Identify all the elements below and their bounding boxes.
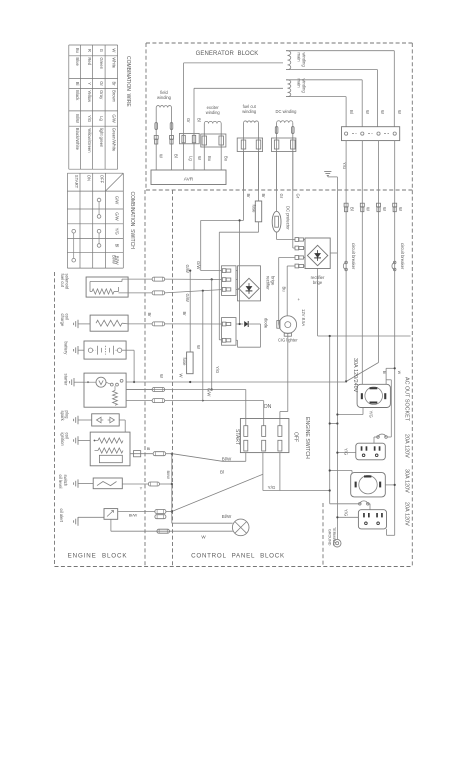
combination switch contact circles START column (72, 229, 76, 233)
fuel cut solenoid box (86, 277, 128, 297)
svg-text:Gr: Gr (279, 194, 284, 199)
spark plug box (92, 414, 120, 426)
svg-text:Y/G: Y/G (87, 115, 92, 122)
svg-text:Y: Y (140, 486, 143, 491)
svg-text:Bl: Bl (382, 371, 386, 374)
starter motor symbol (96, 377, 106, 387)
svg-text:Bl: Bl (220, 469, 224, 474)
wire from W bus into socket3 right (385, 484, 394, 486)
wire Gr right to rectifier2 pin2 (292, 152, 294, 249)
bottom dashed border (55, 566, 413, 568)
svg-text:30A 120V: 30A 120V (404, 469, 410, 493)
svg-text:Br: Br (112, 81, 117, 86)
wire Bl from connector pin1 down (345, 141, 347, 382)
starter solenoid coil (113, 391, 118, 406)
charge coil ground (77, 320, 79, 328)
combination switch table grid (66, 173, 68, 268)
fuel cut solenoid wires to harness (122, 278, 152, 280)
ignition harness pill (153, 452, 166, 456)
ignition coil ground (77, 436, 79, 444)
wire Y/G to socket2 (337, 452, 355, 454)
rectifier bridge 1 wire loop (238, 266, 261, 301)
oil level switch float (97, 482, 117, 486)
svg-text:main: main (297, 53, 302, 63)
svg-text:Y: Y (87, 82, 92, 85)
svg-text:Br: Br (182, 312, 187, 317)
svg-text:Lg: Lg (99, 116, 104, 121)
battery terminals and cells (88, 348, 92, 352)
svg-text:W: W (112, 48, 117, 52)
svg-text:Y/G: Y/G (268, 485, 276, 490)
svg-text:Bl/W: Bl/W (75, 114, 80, 123)
svg-text:START: START (234, 429, 240, 445)
engine switch terminals (244, 426, 248, 437)
battery ground (77, 346, 79, 354)
fuel cut winding legs (243, 123, 245, 190)
svg-text:ignition: ignition (60, 433, 65, 447)
svg-text:plug: plug (65, 411, 70, 420)
svg-text:COMBINATION SWITCH: COMBINATION SWITCH (129, 192, 135, 250)
svg-text:W: W (159, 374, 164, 378)
svg-text:Gr: Gr (295, 194, 300, 199)
svg-text:W: W (365, 110, 370, 114)
svg-text:DC protector: DC protector (286, 206, 291, 230)
svg-text:G/W: G/W (185, 294, 190, 302)
svg-text:W: W (197, 156, 202, 160)
bus link dots (330, 423, 338, 425)
main winding output wires staircase (286, 50, 394, 52)
svg-text:G/W: G/W (196, 261, 201, 269)
field winding pin connectors (154, 136, 158, 140)
svg-text:W: W (159, 154, 164, 158)
rectifier bridge 1 pins upper (222, 269, 226, 273)
svg-text:GENERATOR BLOCK: GENERATOR BLOCK (196, 51, 259, 57)
wire from DC fuse down-left to rectifier pin (258, 222, 260, 232)
rectifier bridge 2 diamond (307, 245, 327, 265)
svg-text:W: W (380, 110, 385, 114)
starter ground (73, 378, 75, 386)
svg-text:GROUND: GROUND (327, 529, 331, 546)
engine switch box (240, 419, 289, 453)
svg-text:rectifier: rectifier (266, 276, 271, 290)
svg-text:Bl/W: Bl/W (166, 471, 171, 480)
ac out socket 3 30A 120V twist lock (351, 473, 386, 497)
charge coil box (90, 315, 128, 331)
battery box (84, 341, 126, 359)
svg-text:Red: Red (87, 57, 92, 65)
svg-text:Bl: Bl (350, 207, 355, 211)
svg-text:Green: Green (99, 57, 104, 69)
oil alert ground (77, 517, 79, 525)
harness pin connectors on generator output wires (344, 203, 348, 207)
wire from socket1 side down to socket2 breaker (386, 379, 391, 381)
spark plug ground (77, 416, 79, 424)
starter harness wires and pills (126, 389, 152, 391)
wire G/W vertical to engine switch ON (202, 291, 204, 401)
ignition coil windings (98, 438, 123, 443)
DC winding bullet connectors (275, 127, 278, 134)
circuit breaker 2 on W wire (393, 261, 396, 264)
svg-text:Black/White: Black/White (75, 128, 80, 151)
svg-text:G/W: G/W (115, 196, 120, 204)
svg-text:Br: Br (261, 194, 266, 199)
svg-text:circuit breaker: circuit breaker (351, 243, 356, 270)
wire G/W vertical to engine switch START (211, 279, 213, 389)
wire from DC protector to rectifier2 pin1 (276, 232, 278, 239)
DC fuse (255, 201, 261, 222)
rectifier bridge 2 connecting stubs (304, 239, 305, 241)
svg-text:20A 120V: 20A 120V (404, 502, 410, 526)
svg-text:fuel cut: fuel cut (60, 274, 65, 288)
wire from bus to socket3 (330, 470, 352, 472)
rectifier bridge 1 pin housing upper (222, 266, 237, 296)
svg-text:Bu: Bu (75, 48, 80, 54)
svg-text:G/W: G/W (112, 114, 117, 122)
svg-text:Y/G: Y/G (344, 448, 349, 455)
wire W from connector pin2 down to socket1 (361, 141, 363, 385)
svg-text:Green/White: Green/White (112, 128, 117, 152)
rectifier bridge 1 diode (246, 286, 253, 291)
svg-text:W: W (196, 345, 201, 349)
generator block dashed border (146, 42, 412, 44)
ignition coil output wire Bl (130, 453, 153, 455)
DC protector oval (272, 211, 281, 232)
wire with breaker into socket4 (359, 503, 362, 506)
svg-text:Blue: Blue (75, 57, 80, 66)
svg-text:Gray: Gray (99, 90, 104, 100)
fuel cut solenoid coil (92, 289, 114, 294)
svg-text:Gr: Gr (99, 81, 104, 86)
wire branch Br vertical link (239, 220, 241, 324)
wire row1 harness to switch START terminal (126, 389, 246, 391)
svg-text:Bl/W: Bl/W (129, 512, 138, 517)
secondary bus from rectifier output (317, 269, 319, 337)
svg-text:coil: coil (65, 433, 70, 439)
wire Gr left through DC protector (276, 152, 278, 212)
rectifier bridge 1 diamond (239, 278, 259, 298)
wire Bl/W from switch bottom to ignition harness (245, 453, 247, 462)
wire G/W row A from harness to rectifier1 (165, 278, 222, 280)
exciter winding 2-pin connector (201, 134, 226, 147)
charge coil winding (96, 320, 122, 326)
spark plug wire to ignition coil (119, 419, 125, 421)
oil alert lower wire to lamp (110, 519, 112, 531)
diode loop below rectifier 1 (236, 323, 243, 325)
svg-text:ON: ON (264, 404, 272, 410)
exciter winding legs (203, 124, 205, 171)
oil alert box (104, 509, 118, 520)
wire W bus bottom into socket4 (387, 534, 395, 536)
ac out socket 4 duplex 20A 120V (358, 510, 386, 529)
wire W from connector pin4 down (394, 141, 396, 536)
svg-text:switch: switch (63, 475, 68, 487)
DC winding coil (277, 121, 293, 123)
svg-text:OFF: OFF (99, 175, 104, 184)
svg-text:COMBINATION WIRE: COMBINATION WIRE (125, 56, 131, 107)
oil level switch ground (77, 479, 79, 487)
svg-text:Lg: Lg (189, 156, 194, 161)
svg-text:winding: winding (302, 53, 307, 68)
svg-text:W: W (178, 374, 183, 378)
svg-text:G: G (99, 49, 104, 52)
oil alert output wires to harness pills (118, 511, 155, 513)
svg-text:Br: Br (147, 313, 152, 318)
battery wire to starter (122, 349, 134, 351)
svg-text:Y/G: Y/G (215, 366, 220, 373)
svg-text:W: W (397, 110, 402, 114)
svg-text:brige: brige (270, 276, 275, 286)
brush 2-pin connector above AVR (180, 133, 200, 143)
ac out socket 2 duplex 20A 120V (356, 443, 386, 460)
main winding 1 coil (288, 51, 291, 70)
svg-text:W: W (366, 207, 371, 211)
spark plug gaps (97, 417, 102, 423)
combination wire table grid (68, 45, 70, 169)
DC winding 2-pin connector (272, 138, 296, 152)
ground terminal lug (333, 539, 341, 547)
field winding legs (155, 108, 157, 171)
svg-text:winding: winding (242, 109, 257, 114)
Y/G ground bus (336, 177, 338, 540)
fuel cut winding coil (244, 121, 259, 123)
circuit breaker 1 on Bl wire (345, 261, 348, 264)
svg-text:starter: starter (64, 374, 69, 386)
rectifier bridge 1 pin housing lower (222, 318, 237, 346)
rectifier bridge 2 diode (314, 253, 321, 258)
brush wires from main windings to AVR (183, 63, 185, 170)
svg-text:brige: brige (313, 280, 323, 285)
svg-text:oil alert: oil alert (59, 509, 64, 523)
svg-text:Y/G: Y/G (369, 411, 374, 418)
svg-text:winding: winding (206, 110, 221, 115)
svg-text:oil level: oil level (58, 475, 63, 489)
svg-text:CONTROL PANEL BLOCK: CONTROL PANEL BLOCK (191, 553, 285, 560)
svg-text:20A 120V: 20A 120V (404, 434, 410, 458)
field winding coil (156, 106, 171, 108)
svg-text:Bl/W: Bl/W (222, 456, 232, 461)
rectifier bridge 1 pins lower (222, 322, 226, 326)
svg-text:Gr: Gr (186, 118, 191, 123)
combination switch contact circles OFF column (97, 198, 101, 202)
svg-text:Yellow: Yellow (87, 90, 92, 103)
engine block dashed right border (144, 190, 146, 567)
starter relay contacts (110, 383, 113, 386)
svg-text:Bl/W: Bl/W (112, 255, 117, 264)
charge coil harness pill (152, 322, 165, 326)
svg-text:ON: ON (87, 175, 92, 181)
main fuse (187, 352, 194, 374)
svg-text:Black: Black (75, 90, 80, 101)
diagonal wire W into socket 1 (346, 363, 378, 382)
wire W from connector pin3 down (378, 141, 380, 363)
svg-text:W: W (382, 207, 387, 211)
svg-text:DC winding: DC winding (276, 109, 298, 114)
CIG lighter (279, 316, 297, 334)
svg-text:circuit breaker: circuit breaker (400, 243, 405, 270)
svg-text:Bl: Bl (197, 118, 202, 122)
svg-text:solenoid: solenoid (65, 274, 70, 290)
rectifier bridge 2 box (305, 238, 330, 269)
ground terminal area dashed divider (322, 503, 324, 567)
svg-text:White: White (112, 57, 117, 68)
svg-text:ENGINE BLOCK: ENGINE BLOCK (68, 553, 128, 560)
wire from rectifier2 pin4 to CIG lighter top (287, 265, 295, 267)
svg-text:AC OUT SOCKET: AC OUT SOCKET (404, 377, 410, 422)
svg-text:START: START (74, 175, 79, 189)
combination switch header diagonal (105, 173, 123, 191)
exciter winding coil (204, 121, 221, 123)
oil level switch box (93, 478, 122, 489)
svg-text:W: W (397, 371, 401, 375)
wire Y/G to socket1 ground (337, 414, 363, 416)
svg-text:Y/G: Y/G (115, 228, 120, 235)
starter box (84, 373, 126, 407)
svg-text:12V 8.5A: 12V 8.5A (301, 309, 306, 326)
fuel cut winding 2-pin connector (237, 138, 262, 152)
wire G/W row B from harness to rectifier1 (165, 290, 222, 293)
wire Bu from rectifier2 pin3 to CIG lighter (279, 257, 295, 259)
control panel block dashed left border (172, 190, 174, 567)
svg-text:Yellow/Green: Yellow/Green (87, 128, 92, 153)
generator ground symbol (324, 171, 331, 173)
oil level switch wire Y to harness (122, 483, 148, 485)
charge coil wire Br to harness (128, 323, 152, 325)
pilot lamp (232, 519, 249, 536)
ac out socket 1 30A 120/240V (357, 384, 390, 407)
AVR box (151, 170, 226, 185)
wire Br right through DC fuse (258, 152, 260, 202)
wire from CIG lighter bottom to engine switch (287, 334, 289, 412)
starter output wire W to fuse junction and socket1 (126, 381, 346, 383)
svg-text:spark: spark (60, 411, 65, 422)
svg-text:OFF: OFF (293, 432, 299, 442)
svg-text:Bl: Bl (75, 82, 80, 86)
wire Br from harness to rectifier1 lower pin (165, 323, 222, 325)
fuel cut harness pills (152, 277, 165, 281)
svg-text:Bl: Bl (349, 110, 354, 114)
svg-text:coil: coil (65, 314, 70, 320)
field winding bullet connectors (155, 123, 158, 130)
svg-text:fuse: fuse (252, 205, 257, 214)
wire Br left from fuel cut winding (243, 152, 245, 221)
engine block dashed left border (54, 272, 56, 567)
svg-text:winding: winding (157, 95, 172, 100)
wire Bl diagonal from oil alert to switch (172, 474, 263, 511)
svg-text:Bu: Bu (224, 156, 229, 162)
control panel / right block dashed right border (411, 43, 413, 567)
svg-text:Bl/W: Bl/W (222, 514, 232, 519)
ignition coil box (90, 432, 130, 466)
svg-text:W: W (398, 207, 403, 211)
svg-text:Br: Br (246, 194, 251, 199)
svg-text:Bl: Bl (174, 154, 179, 158)
wire to lamp bottom with harness pill (111, 530, 233, 532)
svg-text:Brown: Brown (112, 90, 117, 103)
wire Y/G from switch to ground bus (279, 453, 281, 491)
wire to lamp top (172, 522, 233, 524)
svg-text:R: R (87, 49, 92, 52)
wire G/W continuation (164, 278, 166, 280)
wire branch into socket1 top right (386, 367, 395, 369)
svg-text:G/W: G/W (185, 265, 190, 273)
main winding 2 coil (288, 80, 291, 97)
wire Y/G to socket4 (337, 516, 358, 518)
svg-text:Bl: Bl (147, 446, 151, 451)
svg-text:diode: diode (264, 318, 269, 329)
svg-text:battery: battery (64, 342, 69, 356)
svg-text:light green: light green (99, 128, 104, 148)
svg-text:ENGINE SWITCH: ENGINE SWITCH (304, 417, 310, 459)
svg-text:fuse: fuse (182, 358, 187, 367)
rectifier bridge 2 pins (295, 238, 299, 242)
svg-text:G/W: G/W (115, 212, 120, 220)
generator output 4-pin connector strip (342, 127, 400, 141)
svg-text:Bl: Bl (115, 244, 120, 248)
svg-text:Y/G: Y/G (344, 509, 349, 516)
svg-text:AVR: AVR (184, 177, 194, 183)
svg-text:Bu: Bu (282, 287, 287, 293)
wire W fuse branch up to rectifier row (189, 271, 191, 352)
svg-text:winding: winding (302, 79, 307, 94)
svg-text:Bu: Bu (207, 156, 212, 162)
svg-text:charge: charge (60, 314, 65, 327)
DC winding legs (276, 123, 278, 190)
